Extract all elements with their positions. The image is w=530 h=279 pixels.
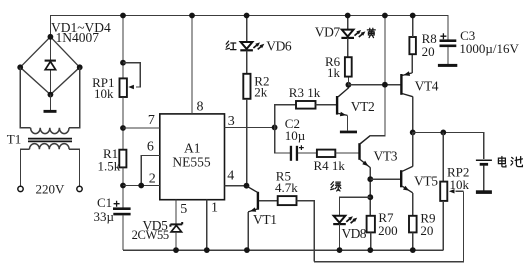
- wire RP1 to R1: [122, 97, 124, 150]
- node R7 ground: [367, 247, 373, 253]
- battery negative short plate: [480, 163, 488, 166]
- wire VT1 base to R5: [259, 200, 278, 202]
- svg-text:7: 7: [148, 113, 155, 128]
- wire pin 3: [225, 126, 275, 128]
- transistor Q4 VT4 (PNP): [401, 71, 412, 96]
- svg-text:VT3: VT3: [374, 148, 398, 163]
- svg-text:R4 1k: R4 1k: [314, 158, 346, 173]
- wire VT5 collector up: [412, 132, 414, 166]
- wire primary right leg: [69, 149, 79, 186]
- capacitor C3 top plate: [440, 39, 457, 42]
- label chi (battery char2): [511, 157, 523, 167]
- RP1 wiper arrowhead: [128, 85, 134, 89]
- wire VT3 collector diagonal: [360, 136, 370, 144]
- wire pin 6: [141, 156, 160, 186]
- wire RP2 bottom to ground rail: [442, 201, 444, 250]
- svg-text:5: 5: [180, 202, 187, 217]
- node VD8/R5 tap: [367, 194, 373, 200]
- wire C2 to R4: [298, 152, 317, 154]
- svg-text:10k: 10k: [94, 86, 114, 101]
- wire pin 1 to ground: [206, 200, 208, 250]
- plus sign C2: [299, 145, 304, 150]
- svg-text:VD7: VD7: [315, 24, 341, 39]
- node pin2/pin6 junction: [138, 183, 144, 189]
- bridge rectifier VD1-VD4 diamond: [20, 37, 79, 95]
- svg-text:10µ: 10µ: [285, 128, 306, 143]
- wire VT2 emitter to ground bar: [346, 115, 348, 130]
- svg-text:NE555: NE555: [172, 154, 210, 169]
- svg-text:1: 1: [211, 200, 218, 215]
- transistor Q3 VT3: [360, 136, 371, 168]
- node rail VD6: [244, 13, 250, 19]
- wire battery to ground bar: [483, 166, 485, 191]
- wire RP1 wiper loop: [123, 63, 140, 87]
- transformer T1 primary winding: [30, 144, 70, 150]
- wire RP2 top lead: [442, 132, 444, 181]
- node rail pin8: [189, 13, 195, 19]
- svg-text:4: 4: [227, 169, 234, 184]
- node RP2 top: [440, 130, 446, 136]
- svg-text:C1: C1: [97, 195, 112, 210]
- svg-text:4.7k: 4.7k: [275, 180, 298, 195]
- svg-text:R3 1k: R3 1k: [289, 85, 321, 100]
- wire VT2 collector to R6: [347, 77, 349, 86]
- resistor R9: [409, 216, 417, 233]
- resistor R3: [296, 101, 316, 109]
- label dian (battery char1): [498, 157, 506, 167]
- wire VT2 collector to VT4 base: [348, 84, 400, 86]
- RP2 wiper arrowhead: [449, 189, 455, 193]
- wire R7 to ground: [370, 232, 372, 250]
- node rail x123: [120, 13, 126, 19]
- wire R8 to rail: [412, 16, 414, 38]
- node RP1 wiper tie: [120, 60, 126, 66]
- transformer core line 2: [28, 140, 72, 142]
- svg-text:2CW55: 2CW55: [132, 228, 169, 242]
- node VT2 collector R6: [346, 82, 352, 88]
- ground bar battery: [476, 190, 492, 194]
- node VT1 emitter ground: [244, 247, 250, 253]
- svg-text:VT2: VT2: [351, 99, 375, 114]
- svg-text:1.5k: 1.5k: [98, 159, 121, 174]
- LED VD7: [341, 30, 365, 38]
- node rail VD7: [345, 13, 351, 19]
- wire VT4 emitter down: [412, 97, 414, 133]
- terminal circle left 220V: [18, 186, 23, 191]
- wire +V top rail: [50, 16, 448, 40]
- zener VD5 triangle: [171, 225, 181, 232]
- svg-text:1N4007: 1N4007: [56, 30, 100, 45]
- node VD5 ground: [173, 247, 179, 253]
- wire VD7 to R6: [347, 38, 349, 57]
- wire bridge to ground: [49, 95, 51, 110]
- transistor Q2 VT2: [337, 85, 348, 116]
- wire VT3 emitter down to R7: [369, 168, 371, 216]
- svg-text:1k: 1k: [327, 65, 341, 80]
- op-amp U1 timer A1 NE555 body: [160, 114, 225, 200]
- transformer T1 secondary winding: [31, 128, 69, 134]
- wire rail to VD6: [246, 16, 248, 42]
- transistor Q1 VT1: [247, 186, 258, 212]
- wire VD8 to ground: [339, 224, 341, 250]
- wire C3 to ground bar: [447, 47, 449, 64]
- capacitor C2 right plate: [296, 146, 298, 161]
- wire primary left leg: [21, 149, 30, 186]
- node VT5 base tap: [367, 176, 373, 182]
- wire VD8 branch: [340, 197, 371, 216]
- svg-text:6: 6: [147, 139, 154, 154]
- ground bar C3: [438, 64, 457, 67]
- svg-text:20: 20: [422, 44, 435, 59]
- wire C1 to ground rail: [122, 215, 124, 250]
- wire bridge left to secondary: [20, 67, 30, 127]
- capacitor C3 bottom plate: [440, 45, 457, 48]
- resistor R5: [278, 196, 297, 205]
- wire bridge internal bottom: [49, 70, 51, 94]
- node pin7 junction: [120, 125, 126, 131]
- wire rail to VT3 collector part1: [370, 16, 385, 136]
- capacitor C1 bottom plate: [113, 213, 130, 216]
- svg-text:VT1: VT1: [253, 212, 277, 227]
- resistor R2: [243, 74, 250, 99]
- LED VD8: [333, 216, 357, 224]
- transistor Q5 VT5: [401, 166, 413, 192]
- svg-text:2k: 2k: [254, 85, 267, 100]
- node VT4 base junction: [382, 82, 388, 88]
- wire pin 7: [123, 127, 160, 129]
- svg-text:VD8: VD8: [342, 226, 367, 241]
- wire battery top line: [413, 132, 484, 159]
- wire pin3 node down to C2: [275, 127, 290, 152]
- plus sign C3: [440, 33, 446, 39]
- wire pin3 node up to R3: [275, 105, 296, 128]
- wire VT1 emitter to ground: [247, 212, 249, 250]
- resistor R8: [409, 37, 416, 54]
- battery positive plate: [476, 159, 492, 161]
- wire pin 8 to rail: [191, 16, 193, 114]
- svg-text:220V: 220V: [36, 181, 66, 196]
- wire +V to RP1/R1/C1 column: [122, 16, 124, 79]
- potentiometer RP1: [120, 78, 127, 97]
- svg-text:VD6: VD6: [266, 38, 292, 53]
- terminal circle right 220V: [77, 186, 82, 191]
- diode triangle inside bridge: [45, 62, 55, 70]
- node pin1 ground: [204, 247, 210, 253]
- plus sign C1: [114, 201, 120, 207]
- ground bar VT2 emitter: [340, 131, 357, 134]
- resistor R1: [119, 150, 126, 168]
- svg-text:VT4: VT4: [415, 79, 439, 94]
- node bridge left: [17, 64, 23, 70]
- svg-text:33µ: 33µ: [94, 209, 115, 224]
- svg-text:A1: A1: [184, 140, 201, 155]
- svg-text:3: 3: [228, 114, 235, 129]
- wire R9 to ground: [412, 232, 414, 250]
- wire R5 to sense line: [297, 201, 315, 262]
- wire pin 2: [123, 185, 160, 187]
- label lv (green): [331, 182, 341, 191]
- potentiometer RP2: [440, 182, 447, 201]
- transformer core line 1: [28, 138, 72, 140]
- wire VT5 base: [370, 178, 400, 180]
- wire VD6 to R2: [246, 50, 248, 74]
- wire ground bottom rail: [123, 249, 443, 251]
- capacitor C2 left plate: [290, 146, 292, 161]
- svg-text:T1: T1: [7, 131, 21, 146]
- node pin4 / VT1 collector: [244, 183, 250, 189]
- resistor R6: [345, 57, 352, 76]
- node R9 ground: [410, 247, 416, 253]
- node bridge top: [48, 34, 54, 40]
- capacitor C1 top plate: [113, 207, 131, 210]
- node VT4/VT5 battery line: [410, 130, 416, 136]
- ground bar under bridge: [44, 110, 57, 113]
- svg-text:200: 200: [378, 223, 398, 238]
- node bridge right: [77, 64, 83, 70]
- resistor R4: [317, 150, 335, 157]
- wire sense line wiper to R5: [314, 191, 463, 261]
- wire R4 to VT3 base: [335, 152, 358, 154]
- node pin2 junction left: [120, 183, 126, 189]
- zener VD5 cathode bar: [170, 222, 182, 227]
- svg-text:VT5: VT5: [414, 173, 438, 188]
- wire R1 to C1: [122, 167, 124, 207]
- label hong (red): [226, 41, 236, 49]
- wire R3 to VT2 base: [316, 104, 337, 106]
- svg-text:20: 20: [420, 223, 433, 238]
- wire rail to VD7: [347, 16, 349, 30]
- wire VD5 to ground: [175, 232, 177, 250]
- diode cathode bar inside bridge: [45, 60, 56, 62]
- node bridge bottom: [48, 92, 54, 98]
- resistor R7: [367, 216, 375, 233]
- wire R2 to pin4 node: [246, 99, 248, 186]
- wire VT5 emitter to R9: [412, 193, 414, 216]
- node rail x384.9: [382, 13, 388, 19]
- wire VT4 top to R8: [411, 54, 413, 73]
- node VD8 ground: [337, 247, 343, 253]
- wire bridge internal top: [49, 38, 51, 60]
- wire RP2 wiper: [456, 190, 464, 192]
- wire pin 5 to VD5: [175, 200, 177, 224]
- svg-text:8: 8: [197, 100, 204, 115]
- svg-text:2: 2: [149, 172, 156, 187]
- label huang (yellow): [367, 28, 375, 37]
- LED VD6: [240, 42, 264, 50]
- svg-text:1000µ/16V: 1000µ/16V: [459, 41, 519, 56]
- node pin3 branch: [272, 125, 278, 131]
- node rail R8: [410, 13, 416, 19]
- wire bridge right to secondary: [69, 67, 80, 127]
- wire pin 4: [225, 185, 247, 187]
